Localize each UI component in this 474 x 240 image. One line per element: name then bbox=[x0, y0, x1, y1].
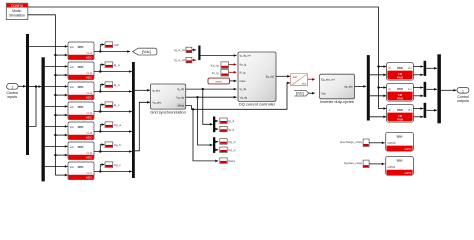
wire ADC CH4 output bbox=[94, 51, 130, 53]
svg-text:Ki_ig: Ki_ig bbox=[240, 70, 246, 74]
junction mode line bbox=[377, 65, 379, 67]
ADC block CH6 bbox=[68, 142, 94, 160]
svg-text:sim: sim bbox=[70, 65, 75, 69]
outport 1 Control outputs bbox=[457, 87, 469, 103]
PWM block 0H bbox=[387, 63, 414, 81]
svg-text:PWM: PWM bbox=[397, 75, 403, 79]
wire Ig_q_ref to mux D bbox=[192, 59, 196, 61]
wire PWM pair to mux F bbox=[426, 88, 437, 90]
svg-text:BBB: BBB bbox=[397, 135, 403, 139]
svg-text:1: 1 bbox=[462, 90, 464, 94]
svg-text:abc: abc bbox=[302, 82, 307, 86]
mux C (Ig/Vg abc) bbox=[132, 62, 135, 178]
wire to tag Ig_a bbox=[100, 65, 104, 72]
svg-text:theta: theta bbox=[228, 159, 235, 163]
wire ADC CH7 output bbox=[94, 171, 132, 173]
wire demux B to ADC CH7 in1 bbox=[45, 165, 68, 167]
svg-text:GPO0: GPO0 bbox=[388, 141, 396, 145]
wire demux A to ADC CH4 in1 bbox=[29, 45, 68, 47]
svg-text:sim: sim bbox=[70, 145, 75, 149]
monitor tag Ig_d bbox=[220, 118, 235, 124]
wire to outport bbox=[441, 89, 456, 91]
wire mode line to ADC CH4 in2 bbox=[55, 54, 67, 56]
monitor tag Vg_a bbox=[105, 122, 121, 128]
wire Ig_d_ref to mux D bbox=[192, 49, 196, 51]
monitor tag Vg_b bbox=[105, 142, 121, 148]
svg-text:CH2: CH2 bbox=[86, 91, 92, 95]
PWM block 1H bbox=[387, 84, 414, 102]
junction demux A branch bbox=[35, 85, 37, 87]
svg-text:Vg_b: Vg_b bbox=[114, 143, 122, 147]
PWM block 2H bbox=[387, 105, 414, 123]
svg-text:Vg_dq: Vg_dq bbox=[176, 95, 184, 99]
svg-text:sim: sim bbox=[70, 45, 75, 49]
svg-text:D: D bbox=[389, 108, 391, 112]
wire PWM 2L out2 bbox=[413, 116, 423, 118]
svg-text:Kp_ig: Kp_ig bbox=[211, 63, 219, 67]
mux D (Ig_dq_ref) bbox=[198, 46, 200, 61]
svg-text:CONFIG: CONFIG bbox=[11, 4, 24, 8]
junction theta bbox=[192, 108, 194, 110]
wire bypass_relay to GPO1 bbox=[369, 163, 385, 165]
svg-text:ADC: ADC bbox=[86, 135, 93, 139]
svg-text:D: D bbox=[389, 87, 391, 91]
wire demux B to ADC CH5 in1 bbox=[45, 125, 68, 127]
ADC block CH1 bbox=[68, 62, 94, 80]
from tag [Vdc] bbox=[294, 90, 309, 96]
svg-text:sim: sim bbox=[70, 125, 75, 129]
ADC block CH4 bbox=[68, 42, 94, 60]
wire Kp_ig to controller bbox=[229, 64, 236, 66]
svg-text:Ig_q: Ig_q bbox=[228, 127, 234, 131]
wire theta to tag bbox=[193, 109, 218, 161]
wire Ki_ig to controller bbox=[229, 71, 236, 73]
wire Ig_dq to controller bbox=[186, 88, 237, 90]
junction mode line bbox=[54, 114, 56, 116]
wire PWM pair to mux F bbox=[426, 109, 437, 111]
svg-text:precharge_relay: precharge_relay bbox=[340, 140, 363, 144]
svg-text:sim: sim bbox=[70, 105, 75, 109]
svg-text:dq0: dq0 bbox=[293, 75, 298, 79]
subsystem Grid synchronization bbox=[150, 84, 185, 109]
junction to tag bbox=[99, 150, 101, 152]
wire demux A lower branch bbox=[29, 87, 36, 127]
junction to tag bbox=[99, 90, 101, 92]
GPO block GPO1 bbox=[386, 157, 414, 176]
svg-text:Ig_q_ref: Ig_q_ref bbox=[174, 58, 185, 62]
wire dg_abc to demux E bbox=[355, 85, 367, 87]
svg-text:ADC: ADC bbox=[86, 75, 93, 79]
junction to tag bbox=[99, 50, 101, 52]
svg-text:BBB: BBB bbox=[78, 65, 84, 69]
junction mode line bbox=[54, 134, 56, 136]
svg-text:BBB: BBB bbox=[397, 87, 403, 91]
svg-text:Ig_dq_ref: Ig_dq_ref bbox=[240, 54, 251, 58]
wire theta to dq0/abc transform bbox=[186, 83, 290, 109]
svg-text:Vg_a: Vg_a bbox=[114, 123, 122, 127]
monitor tag Vg_d bbox=[220, 139, 236, 145]
wire to tag Vg_d bbox=[215, 141, 218, 143]
CONFIG mode block bbox=[6, 3, 28, 19]
svg-text:Ig_d_ref: Ig_d_ref bbox=[174, 48, 185, 52]
svg-text:GPO: GPO bbox=[405, 171, 412, 175]
svg-text:PWM: PWM bbox=[397, 117, 403, 121]
wire Vg_dq to controller bbox=[186, 96, 237, 98]
goto tag [Vdc] bbox=[133, 48, 157, 55]
monitor tag Vg_q bbox=[220, 147, 236, 153]
svg-text:ADC: ADC bbox=[86, 55, 93, 59]
svg-text:CH5: CH5 bbox=[86, 131, 92, 135]
wire precharge_relay to GPO0 bbox=[369, 142, 385, 144]
monitor tag Ig_a bbox=[105, 62, 120, 68]
demux G2 (Vg_dq) bbox=[213, 137, 215, 153]
wire Vg_dq to demux G2 bbox=[198, 97, 213, 145]
ADC block CH3 bbox=[68, 102, 94, 120]
wire mode line to ADC CH1 in2 bbox=[55, 74, 67, 76]
svg-text:Eg_dq*: Eg_dq* bbox=[266, 74, 275, 78]
wire ADC CH3 output bbox=[94, 111, 132, 113]
wire demux B to ADC CH2 in1 bbox=[45, 85, 68, 87]
demux B (sim analog values) bbox=[42, 57, 45, 181]
junction mode line bbox=[54, 94, 56, 96]
monitor tag Ig_q bbox=[220, 126, 235, 132]
svg-text:BBB: BBB bbox=[397, 159, 403, 163]
svg-text:Eg_abc_ref: Eg_abc_ref bbox=[321, 78, 335, 82]
svg-text:GPO: GPO bbox=[405, 147, 412, 151]
svg-text:D: D bbox=[389, 66, 391, 70]
wire to tag Ig_b bbox=[100, 85, 104, 92]
wire mode to PWM 2H in1 bbox=[379, 108, 387, 110]
monitor tag theta bbox=[220, 158, 235, 164]
svg-text:inputs: inputs bbox=[8, 95, 18, 99]
GPO block GPO0 bbox=[386, 132, 414, 151]
wire mode to PWM 1H in1 bbox=[379, 87, 387, 89]
wire mode line to ADC CH3 in2 bbox=[55, 114, 67, 116]
svg-text:BBB: BBB bbox=[397, 108, 403, 112]
wire duty to PWM 2H in2 bbox=[370, 116, 386, 118]
wire mode line to ADC CH2 in2 bbox=[55, 94, 67, 96]
demux G1 (Ig_dq) bbox=[213, 117, 215, 133]
mux PWM pair 0H/0L bbox=[424, 61, 427, 76]
svg-text:ADC: ADC bbox=[86, 115, 93, 119]
mux F (control outputs) bbox=[437, 54, 441, 123]
junction to tag bbox=[99, 110, 101, 112]
svg-text:Vdc: Vdc bbox=[114, 43, 120, 47]
svg-text:Vg_d: Vg_d bbox=[228, 140, 236, 144]
svg-text:Vg_dq: Vg_dq bbox=[240, 95, 248, 99]
wire to tag Vg_q bbox=[215, 149, 218, 151]
svg-text:reset: reset bbox=[215, 80, 222, 84]
wire Ig_dq to demux G1 bbox=[203, 89, 213, 124]
from tag precharge_relay bbox=[363, 139, 369, 147]
monitor tag Ig_b bbox=[105, 82, 120, 88]
wire demux B to ADC CH3 in1 bbox=[45, 105, 68, 107]
svg-text:dg_abc: dg_abc bbox=[344, 85, 353, 89]
wire to tag Vg_a bbox=[100, 125, 104, 132]
svg-text:Simulation: Simulation bbox=[9, 14, 25, 18]
mux PWM pair 2H/2L bbox=[424, 103, 427, 118]
subsystem DQ current controller bbox=[238, 52, 276, 102]
demux E (duty cycles) bbox=[367, 55, 370, 120]
wire Ig_abc to grid sync bbox=[135, 89, 150, 91]
svg-text:Ig_a: Ig_a bbox=[114, 63, 120, 67]
svg-text:sim: sim bbox=[70, 85, 75, 89]
svg-text:BBB: BBB bbox=[78, 85, 84, 89]
wire ADC CH2 output bbox=[94, 91, 132, 93]
demux A (control inputs) bbox=[26, 34, 29, 155]
wire to tag Ig_d bbox=[215, 120, 218, 122]
svg-text:DQ current controller: DQ current controller bbox=[239, 102, 276, 107]
svg-text:ADC: ADC bbox=[86, 155, 93, 159]
svg-text:outputs: outputs bbox=[457, 99, 469, 103]
wire to tag Vdc bbox=[100, 45, 104, 52]
mux PWM pair 1H/1L bbox=[424, 82, 427, 97]
wire PWM 1L out2 bbox=[413, 95, 423, 97]
junction mode line bbox=[54, 154, 56, 156]
svg-text:CH4: CH4 bbox=[86, 51, 92, 55]
reset source block bbox=[208, 78, 230, 84]
wire Eg_dq* to transform bbox=[276, 75, 290, 77]
svg-text:BBB: BBB bbox=[78, 145, 84, 149]
junction mode line bbox=[54, 74, 56, 76]
ADC block CH2 bbox=[68, 82, 94, 100]
svg-text:PWM: PWM bbox=[397, 96, 403, 100]
inport 1 Control inputs bbox=[7, 84, 19, 100]
svg-text:Vg_c: Vg_c bbox=[114, 163, 122, 167]
subsystem Inverter duty-cycles bbox=[320, 74, 355, 99]
svg-text:BBB: BBB bbox=[78, 105, 84, 109]
svg-text:Ig_d: Ig_d bbox=[228, 119, 234, 123]
svg-text:GPO1: GPO1 bbox=[388, 165, 396, 169]
svg-text:Mode:: Mode: bbox=[12, 9, 21, 13]
wire mode line to ADC CH7 in2 bbox=[55, 174, 67, 176]
monitor tag Vdc bbox=[105, 42, 119, 48]
monitor tag Ig_c bbox=[105, 102, 120, 108]
wire inport to demux A bbox=[18, 85, 26, 87]
wire duty to PWM 1H in2 bbox=[370, 95, 386, 97]
svg-text:CH3: CH3 bbox=[86, 111, 92, 115]
wire ADC CH5 output bbox=[94, 131, 132, 133]
svg-text:0H: 0H bbox=[408, 66, 412, 70]
svg-text:Inverter duty-cycles: Inverter duty-cycles bbox=[320, 99, 354, 104]
svg-text:theta: theta bbox=[178, 103, 184, 107]
junction Ig_dq bbox=[202, 88, 204, 90]
wire Vg_abc to grid sync bbox=[135, 102, 150, 151]
wire mode signal to PWM blocks bbox=[28, 7, 379, 109]
wire Vdc to duty block bbox=[309, 92, 315, 94]
svg-text:Ig_c: Ig_c bbox=[114, 103, 120, 107]
svg-text:ADC: ADC bbox=[86, 175, 93, 179]
junction mode line bbox=[377, 86, 379, 88]
wire Ig_dq_ref to controller bbox=[201, 55, 237, 57]
wire mode line to ADC CH5 in2 bbox=[55, 134, 67, 136]
ADC block CH7 bbox=[68, 162, 94, 180]
svg-text:Grid synchronization: Grid synchronization bbox=[150, 109, 185, 114]
wire PWM 0L out2 bbox=[413, 74, 423, 76]
svg-text:CH6: CH6 bbox=[86, 151, 92, 155]
svg-text:CH1: CH1 bbox=[86, 71, 92, 75]
junction to tag bbox=[99, 70, 101, 72]
wire to tag Vg_c bbox=[100, 165, 104, 172]
monitor tag Vg_c bbox=[105, 162, 121, 168]
wire ADC CH6 output bbox=[94, 151, 132, 153]
wire duty to PWM 0H in2 bbox=[370, 74, 386, 76]
wire Eg_abc_ref bbox=[308, 78, 315, 80]
junction to tag bbox=[99, 130, 101, 132]
wire mode signal to ADC blocks bbox=[28, 15, 56, 176]
param tag Ki_ig bbox=[221, 70, 229, 76]
from tag Ig_d_ref bbox=[186, 47, 192, 53]
svg-text:Vg_abc: Vg_abc bbox=[152, 100, 162, 104]
wire reset to controller bbox=[230, 80, 237, 82]
svg-text:Vdc: Vdc bbox=[321, 91, 326, 95]
param tag Kp_ig bbox=[221, 62, 229, 68]
junction to tag bbox=[99, 170, 101, 172]
wire mode to PWM 0H in1 bbox=[379, 66, 387, 68]
svg-text:Ki_ig: Ki_ig bbox=[212, 71, 219, 75]
wire PWM 0H out1 bbox=[413, 66, 423, 68]
wire to tag Ig_q bbox=[215, 128, 218, 130]
svg-text:Ig_dq: Ig_dq bbox=[177, 87, 184, 91]
svg-text:[Vdc]: [Vdc] bbox=[296, 92, 304, 96]
svg-text:2H: 2H bbox=[408, 108, 412, 112]
svg-text:Ig_dq: Ig_dq bbox=[240, 87, 247, 91]
wire PWM 1H out1 bbox=[413, 87, 423, 89]
svg-text:1H: 1H bbox=[408, 87, 412, 91]
svg-text:sim: sim bbox=[70, 165, 75, 169]
wire demux A to demux B bbox=[29, 86, 41, 88]
svg-text:Kp_ig: Kp_ig bbox=[240, 63, 247, 67]
svg-text:BBB: BBB bbox=[78, 125, 84, 129]
junction Vg_dq bbox=[196, 96, 198, 98]
ADC block CH5 bbox=[68, 122, 94, 140]
transform block dq0 to abc bbox=[291, 74, 308, 86]
svg-text:Ig_abc: Ig_abc bbox=[152, 88, 161, 92]
svg-text:[Vdc]: [Vdc] bbox=[142, 50, 151, 54]
wire PWM 2H out1 bbox=[413, 108, 423, 110]
wire to tag Ig_c bbox=[100, 105, 104, 112]
svg-text:BBB: BBB bbox=[78, 45, 84, 49]
svg-text:BBB: BBB bbox=[397, 66, 403, 70]
from tag Ig_q_ref bbox=[186, 57, 192, 63]
svg-text:bypass_relay: bypass_relay bbox=[344, 161, 363, 165]
from tag bypass_relay bbox=[363, 160, 369, 168]
svg-text:CH7: CH7 bbox=[86, 171, 92, 175]
svg-text:Ig_b: Ig_b bbox=[114, 83, 120, 87]
svg-text:1: 1 bbox=[11, 86, 13, 90]
svg-text:Vg_q: Vg_q bbox=[228, 148, 236, 152]
wire to tag Vg_b bbox=[100, 145, 104, 152]
wire PWM pair to mux F bbox=[426, 67, 437, 69]
wire mode line to ADC CH6 in2 bbox=[55, 154, 67, 156]
wire demux B to ADC CH6 in1 bbox=[45, 145, 68, 147]
svg-text:reset: reset bbox=[240, 79, 246, 83]
svg-text:ADC: ADC bbox=[86, 95, 93, 99]
junction mode line bbox=[54, 54, 56, 56]
wire demux B to ADC CH1 in1 bbox=[45, 65, 68, 67]
svg-text:BBB: BBB bbox=[78, 165, 84, 169]
wire ADC CH1 output bbox=[94, 71, 132, 73]
